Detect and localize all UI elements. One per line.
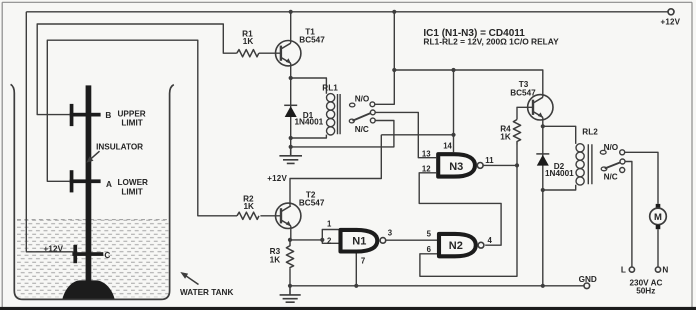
wire probe B to R1 <box>37 24 237 115</box>
node pin14 junction <box>451 133 455 137</box>
wire N1 pins 1-2 bracket <box>322 230 338 244</box>
pin number labels <box>327 142 494 266</box>
wire relay RL1 coil top branch <box>291 78 327 94</box>
wire pin14 riser <box>453 70 455 135</box>
ground symbol G2 <box>280 286 301 302</box>
svg-text:M: M <box>654 212 662 223</box>
NAND gate N2 <box>439 234 484 256</box>
svg-text:N1: N1 <box>352 236 366 248</box>
arrow insulator pointer <box>86 151 99 163</box>
node RL2 rail junction <box>541 284 545 288</box>
node pin7 rail junction <box>354 284 358 288</box>
relay coil RL1 <box>327 94 341 135</box>
wire RL1 N/C to ground <box>291 121 394 147</box>
wire R4 bottom / feedback to N2 pin 6 <box>420 145 517 277</box>
wire pin 14 drop to N3 <box>453 135 455 152</box>
arrow water tank pointer <box>180 272 198 285</box>
node R3 ground junction <box>288 284 292 288</box>
svg-text:WATER TANK: WATER TANK <box>180 288 233 297</box>
node L terminal <box>629 267 634 272</box>
wire +12V rail to probe C <box>26 12 73 252</box>
svg-text:N: N <box>662 266 668 275</box>
resistor R2 <box>237 212 259 219</box>
node pin11/R4 junction <box>515 163 519 167</box>
svg-text:BC547: BC547 <box>299 36 325 45</box>
node D2 anode / RL2 coil junction <box>541 188 545 192</box>
svg-text:1K: 1K <box>243 202 254 211</box>
svg-text:1N4001: 1N4001 <box>545 169 574 178</box>
water tank <box>11 84 174 299</box>
wire +12V horizontal to T2 collector riser <box>381 134 453 136</box>
svg-text:LIMIT: LIMIT <box>121 118 142 127</box>
svg-text:N2: N2 <box>449 240 463 252</box>
svg-text:RL1: RL1 <box>322 84 338 93</box>
svg-text:C: C <box>104 251 110 260</box>
wire +12V top rail <box>26 11 668 13</box>
probe A <box>70 170 101 192</box>
svg-text:50Hz: 50Hz <box>636 286 655 295</box>
resistor R4 <box>513 120 520 145</box>
svg-text:1: 1 <box>327 220 332 229</box>
wire T3 emitter down <box>542 117 544 126</box>
node D1 anode / coil junction <box>289 136 293 140</box>
svg-text:2: 2 <box>327 236 332 245</box>
wire relay RL1 coil bottom return <box>291 135 327 138</box>
svg-text:RL2: RL2 <box>582 128 598 137</box>
wire ground rail <box>290 285 584 287</box>
svg-text:+12V: +12V <box>267 174 287 183</box>
svg-text:N/O: N/O <box>604 143 619 152</box>
wire R1 to T1 base <box>259 52 281 54</box>
svg-text:BC547: BC547 <box>510 88 536 97</box>
water surface dashed line <box>17 219 169 221</box>
ground symbol G1 <box>279 147 302 164</box>
wire D1 branch vertical <box>290 78 292 138</box>
wire T2 emitter to N1 inputs <box>290 239 322 241</box>
svg-text:LOWER: LOWER <box>118 178 149 187</box>
wire N3 pin 12 from N2 output <box>419 173 501 245</box>
probe C <box>72 245 103 263</box>
NAND gate N1 <box>341 230 386 252</box>
wire T2 emitter down <box>290 226 292 240</box>
svg-text:BC547: BC547 <box>299 198 325 207</box>
wire T2 collector riser <box>290 135 381 206</box>
node +12V terminal <box>668 9 674 15</box>
wire motor to N terminal <box>657 229 659 267</box>
svg-text:5: 5 <box>427 230 432 239</box>
transistor T1 <box>276 41 301 66</box>
diode D2 <box>536 154 549 166</box>
node N terminal <box>655 267 660 272</box>
wire T1 emitter down <box>290 63 292 78</box>
diode D1 <box>284 105 297 117</box>
svg-text:11: 11 <box>485 156 494 165</box>
node riser at rail <box>392 10 396 14</box>
motor M1 <box>650 204 667 229</box>
node pin14 riser top <box>451 68 455 72</box>
NAND gate N3 <box>438 154 483 176</box>
transistor T2 <box>276 203 301 228</box>
wire N1 output to N2 pin 5 <box>386 239 437 241</box>
svg-text:4: 4 <box>488 236 493 245</box>
wire RL2 arm to L terminal <box>625 162 632 267</box>
node T1 collector junction <box>289 10 293 14</box>
node T1 emitter junction <box>289 76 293 80</box>
svg-text:6: 6 <box>427 245 432 254</box>
relay RL1 contacts <box>349 102 375 123</box>
wire T1 collector to rail <box>290 12 292 43</box>
node T3 emitter junction <box>541 124 545 128</box>
svg-text:INSULATOR: INSULATOR <box>96 142 143 151</box>
svg-text:N/C: N/C <box>604 173 618 182</box>
svg-text:N/O: N/O <box>355 95 370 104</box>
relay RL2 contacts <box>600 150 625 173</box>
transistor T3 <box>528 95 553 120</box>
svg-text:N/C: N/C <box>355 125 369 134</box>
svg-text:A: A <box>106 180 112 189</box>
probe B <box>70 104 101 126</box>
node T2 emitter junction <box>288 238 292 242</box>
wire probe A to R2 <box>47 40 237 216</box>
wire R2 to T2 base <box>260 215 281 217</box>
svg-text:N3: N3 <box>449 161 463 173</box>
svg-text:L: L <box>621 266 626 275</box>
svg-text:14: 14 <box>443 142 452 151</box>
svg-text:LIMIT: LIMIT <box>121 188 142 197</box>
svg-text:1K: 1K <box>270 256 281 265</box>
svg-text:1K: 1K <box>243 37 254 46</box>
wire R3 bottom to ground rail <box>289 269 291 286</box>
wire N3 pin 11 output <box>483 164 517 166</box>
svg-text:+12V: +12V <box>661 17 681 26</box>
node ground junction <box>289 145 293 149</box>
svg-text:7: 7 <box>361 257 365 266</box>
svg-text:+12V: +12V <box>44 244 64 253</box>
wire y70 to T3 collector <box>394 70 543 97</box>
svg-text:12: 12 <box>422 165 431 174</box>
svg-text:GND: GND <box>579 275 597 284</box>
wire RL2 coil bottom return <box>543 185 576 190</box>
wire T3 base to R4 <box>517 107 533 119</box>
wire RL1 N/O to +12V riser <box>375 12 394 105</box>
wire N1 pin 7 <box>355 253 357 285</box>
svg-text:1N4001: 1N4001 <box>295 118 324 127</box>
wire to ground node <box>290 138 292 147</box>
svg-text:1K: 1K <box>500 132 511 141</box>
resistor R3 <box>286 240 293 269</box>
wire RL1 arm to N3 pin 13 <box>375 112 436 157</box>
resistor R1 <box>237 50 259 57</box>
wire D2 branch vertical <box>542 126 544 190</box>
mound base <box>63 280 115 298</box>
svg-text:RL1-RL2 = 12V, 200Ω 1C/O RELAY: RL1-RL2 = 12V, 200Ω 1C/O RELAY <box>423 37 559 47</box>
node N1 input tie <box>320 238 324 242</box>
svg-text:3: 3 <box>388 229 393 238</box>
wire D2 node to ground rail <box>542 190 544 286</box>
svg-text:B: B <box>105 111 111 120</box>
svg-text:13: 13 <box>422 150 431 159</box>
svg-text:UPPER: UPPER <box>118 109 146 118</box>
wire RL2 coil top branch <box>543 126 576 144</box>
insulator rod <box>86 85 92 282</box>
wire RL2 N/O to motor <box>625 152 658 204</box>
node riser y70 junction <box>392 68 396 72</box>
node GND terminal <box>584 283 590 289</box>
relay coil RL2 <box>576 144 592 185</box>
